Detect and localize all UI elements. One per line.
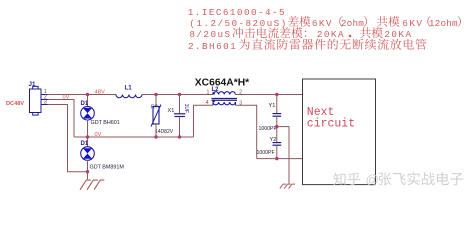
junction 0V / varistor <box>154 135 157 138</box>
junction 48V / X1 <box>178 93 181 96</box>
wire 0V rail up to L2 pin4 <box>194 105 214 137</box>
capacitor X1 <box>174 114 185 117</box>
wire 48V from L2 pin2 to next circuit <box>236 94 303 96</box>
junction 48V / varistor <box>154 93 157 96</box>
svg-text:14D82V: 14D82V <box>155 129 174 135</box>
junction earth node left <box>86 170 89 173</box>
svg-text:1000PF: 1000PF <box>259 126 277 132</box>
next circuit block <box>303 79 376 185</box>
svg-text:2.BH601: 2.BH601 <box>188 41 237 52</box>
svg-text:1UF: 1UF <box>183 104 189 113</box>
wire Y cap midpoint to earth <box>277 127 289 184</box>
svg-text:circuit: circuit <box>307 117 355 130</box>
svg-text:L1: L1 <box>125 85 133 92</box>
wire 48V rail from L1 to L2 pin1 <box>142 94 213 96</box>
capacitor Y1 <box>273 114 282 117</box>
gas discharge tube D1 (BH601) <box>81 106 95 120</box>
junction 48V / GDT <box>86 93 89 96</box>
svg-text:0V: 0V <box>63 95 70 101</box>
capacitor Y2 <box>273 143 282 146</box>
svg-text:1000PF: 1000PF <box>257 150 275 156</box>
wire GDT D1 lower to ground <box>87 160 89 179</box>
wire 48V to capacitor X1 top <box>179 95 181 114</box>
svg-text:Y2: Y2 <box>270 137 277 143</box>
gas discharge tube D1 (BM891M) <box>81 147 95 161</box>
svg-text:8/20uS: 8/20uS <box>189 29 231 40</box>
junction 48V / Y1 <box>275 93 278 96</box>
inductor L1 <box>116 95 142 98</box>
wire GDT D1 to GDT D1 lower <box>87 120 89 148</box>
wire varistor bottom to 0V rail <box>155 124 157 137</box>
wire 48V to GDT D1 top <box>87 95 89 108</box>
svg-text:X1: X1 <box>168 108 175 114</box>
junction Y1-Y2 midpoint <box>275 125 278 128</box>
svg-text:20KA: 20KA <box>384 29 412 40</box>
wire Y1 bottom to Y2 top <box>276 116 278 142</box>
svg-text:1: 1 <box>207 89 210 95</box>
svg-text:3: 3 <box>44 99 47 105</box>
svg-text:D1: D1 <box>81 101 89 107</box>
svg-text:2ohm: 2ohm <box>341 18 364 29</box>
wire capacitor X1 bottom to 0V rail <box>179 117 181 138</box>
watermark zhihu <box>333 173 345 186</box>
wire Y2 bottom to 0V <box>276 145 278 158</box>
varistor R? (14D82V) <box>151 105 161 127</box>
junction 0V / Y2 <box>275 157 278 160</box>
svg-text:D1: D1 <box>81 141 89 147</box>
svg-text:XC664A*H*: XC664A*H* <box>195 78 249 89</box>
wire 0V from J1 pin2 down <box>48 100 75 138</box>
wire 0V rail <box>74 136 194 138</box>
svg-text:J1: J1 <box>29 81 36 88</box>
wire 48V to varistor R? top <box>155 95 157 107</box>
svg-text:20KA: 20KA <box>317 29 345 40</box>
wire 48V rail from J1 pin1 to L1 <box>48 94 117 96</box>
svg-text:GDT BM891M: GDT BM891M <box>90 165 125 171</box>
svg-text:1.IEC61000-4-5: 1.IEC61000-4-5 <box>188 7 286 18</box>
svg-text:Y1: Y1 <box>269 103 276 109</box>
wire 48V to capacitor Y1 <box>276 95 278 114</box>
ground (earth) left <box>80 180 104 190</box>
svg-text:6KV: 6KV <box>402 18 423 29</box>
wire 0V to next circuit <box>257 158 303 160</box>
svg-text:@: @ <box>366 172 379 187</box>
wire 0V from L2 pin3 down <box>236 105 257 158</box>
svg-text:12ohm: 12ohm <box>429 18 458 29</box>
wire J1 pin3 to earth node <box>48 105 88 172</box>
ground (earth) right <box>280 184 295 189</box>
svg-text:4: 4 <box>206 100 209 106</box>
svg-text:GDT BH601: GDT BH601 <box>91 120 120 126</box>
junction 0V / X1 <box>178 135 181 138</box>
junction 0V / GDT <box>86 135 89 138</box>
common-mode choke L2 <box>212 92 238 105</box>
connector J1 <box>30 86 48 115</box>
svg-text:6KV: 6KV <box>312 18 333 29</box>
svg-text:(1.2/50-820uS): (1.2/50-820uS) <box>189 18 287 29</box>
svg-text:DC48V: DC48V <box>6 101 24 107</box>
svg-text:0V: 0V <box>95 132 102 138</box>
svg-text:R?: R? <box>151 104 158 110</box>
svg-text:48V: 48V <box>95 89 105 95</box>
